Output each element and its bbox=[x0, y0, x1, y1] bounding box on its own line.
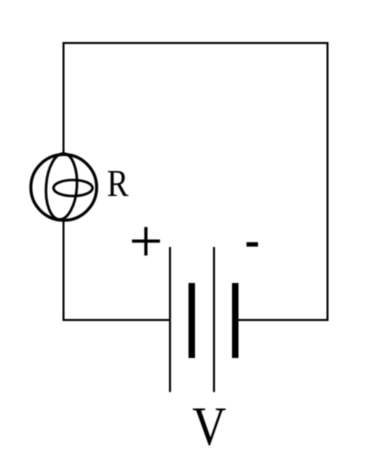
minus sign bbox=[247, 242, 259, 246]
battery cell 1 short plate bbox=[189, 283, 196, 358]
wire: lamp top to top-left corner, top wire, right wire, bottom-right wire to battery bbox=[64, 43, 328, 320]
plus sign bbox=[132, 227, 160, 256]
battery cell 2 long plate bbox=[213, 247, 215, 392]
lamp R: filament horizontal loop bbox=[54, 180, 93, 196]
battery cell 2 short plate bbox=[232, 283, 239, 358]
lamp R: outer circle bbox=[31, 155, 97, 221]
wire: lamp bottom to bottom-left corner and to battery left plate bbox=[64, 221, 171, 320]
svg-text:V: V bbox=[192, 396, 226, 457]
battery cell 1 long plate bbox=[169, 247, 171, 392]
lamp R: filament vertical loop bbox=[44, 153, 79, 221]
svg-text:R: R bbox=[107, 163, 129, 205]
